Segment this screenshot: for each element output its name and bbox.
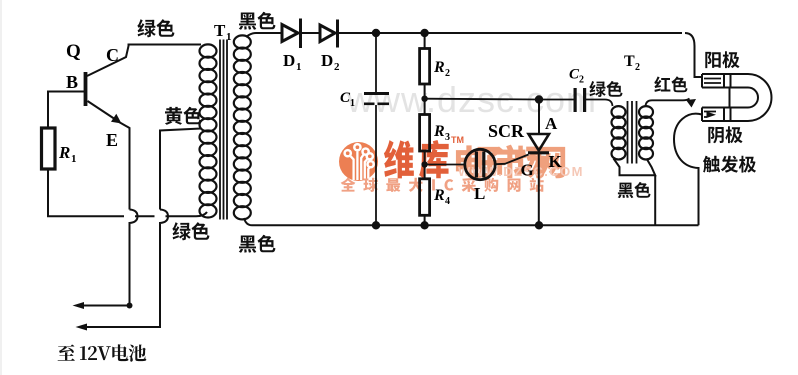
svg-text:2: 2 (445, 68, 450, 79)
transistor Q1 base bar (84, 72, 88, 106)
junction node R2 top (420, 29, 428, 37)
label black T2 (618, 182, 651, 198)
neon lamp L (465, 149, 495, 179)
junction dot emitter corner (127, 303, 133, 309)
label cathode (708, 126, 742, 143)
label anode (705, 51, 739, 68)
svg-text:L: L (474, 184, 485, 203)
wire R2 top (424, 33, 426, 225)
transistor Q1 collector wire (87, 45, 201, 77)
emitter wire hop over bottom rail (130, 210, 138, 304)
junction node R4 bottom (420, 221, 428, 229)
label green C2 (589, 81, 622, 97)
transformer T1 core (220, 40, 227, 220)
flash tube body (702, 74, 771, 121)
svg-text:4: 4 (445, 196, 450, 207)
junction node SCR anode (535, 95, 543, 103)
resistor R3 (420, 115, 430, 152)
watermark row 全球最大IC采购网站 (341, 178, 544, 192)
label black bottom (239, 235, 276, 253)
junction node C1 bottom (372, 221, 380, 229)
svg-text:R: R (58, 143, 70, 162)
watermark text 维库 (384, 140, 449, 178)
transformer T1 secondary bottom wire (244, 218, 252, 225)
transformer T1 secondary top wire (246, 33, 256, 37)
scan edge streak (0, 0, 2, 375)
diode D2 (320, 25, 335, 42)
wire to battery arrow 1 (81, 305, 130, 307)
yellow tap wire from T1 (160, 129, 201, 210)
transformer T2 secondary winding (639, 106, 653, 159)
transformer T1 primary winding (200, 44, 217, 217)
cathode electrode with arrow (704, 112, 716, 118)
label red (654, 76, 687, 92)
label green bottom (172, 222, 209, 240)
svg-text:Q: Q (66, 41, 81, 62)
svg-text:E: E (106, 130, 118, 150)
svg-text:R: R (433, 123, 445, 140)
label black top (239, 12, 276, 30)
watermark logo circle icon (339, 142, 378, 181)
svg-text:R: R (433, 187, 445, 204)
transformer T2 core (628, 101, 637, 164)
resistor R4 (420, 179, 430, 216)
capacitor C2 (574, 88, 577, 112)
flash tube seals (724, 74, 731, 121)
junction node R2-R3 (421, 96, 427, 102)
resistor R2 (420, 49, 430, 85)
wire T2 to bottom rail (654, 175, 656, 225)
svg-text:2: 2 (334, 61, 340, 73)
svg-text:R: R (433, 59, 445, 76)
svg-text:G: G (521, 161, 534, 180)
top rail wire (256, 32, 682, 34)
wire R1 to bottom rail (48, 169, 124, 216)
svg-text:D: D (321, 51, 333, 70)
SCR gate wire (495, 155, 529, 165)
red wire from T2 secondary with arrow (646, 99, 690, 107)
resistor R1 (42, 128, 56, 169)
svg-text:3: 3 (445, 132, 450, 143)
wire R3R4 junction to lamp (425, 164, 465, 166)
svg-text:TM: TM (451, 135, 464, 145)
svg-text:SCR: SCR (488, 121, 525, 141)
svg-text:T: T (624, 53, 635, 70)
junction node SCR cathode bottom (535, 221, 543, 229)
svg-text:K: K (549, 152, 563, 171)
label trigger electrode (703, 156, 756, 173)
diode D1 (282, 25, 298, 42)
yellow tap wire hop over bottom rail (84, 210, 168, 328)
wire to battery arrow 2 (76, 324, 88, 331)
mid rail wire to C2 (425, 98, 574, 101)
svg-text:1: 1 (71, 153, 77, 165)
bottom rail (252, 224, 699, 226)
svg-text:B: B (66, 72, 78, 92)
svg-text:2: 2 (579, 75, 584, 86)
svg-text:D: D (283, 51, 295, 70)
transistor Q1 base wire (48, 92, 84, 129)
label to 12V battery (58, 344, 147, 361)
junction node C1 top (372, 29, 380, 37)
junction node R3-R4 (421, 161, 427, 167)
svg-text:T: T (214, 21, 226, 40)
svg-text:A: A (545, 114, 558, 133)
svg-text:2: 2 (635, 62, 640, 73)
wire C2 to T2 (586, 100, 613, 107)
svg-text:1: 1 (226, 31, 232, 43)
anode lead from top rail (685, 33, 702, 77)
label green top (137, 19, 174, 37)
capacitor C1 (375, 33, 377, 92)
cathode lead arc (674, 114, 702, 226)
svg-text:1: 1 (296, 61, 302, 73)
transistor Q1 emitter wire with arrow (88, 101, 118, 121)
svg-text:1: 1 (350, 98, 355, 109)
label yellow (165, 107, 202, 125)
watermark text 电子市场网 (456, 145, 565, 179)
transformer T2 bottom funnel (614, 159, 656, 176)
SCR thyristor (538, 100, 540, 135)
anode electrode (704, 79, 721, 84)
svg-text:C: C (106, 45, 119, 65)
transformer T1 secondary winding (234, 35, 251, 219)
transformer T2 primary winding (612, 106, 626, 159)
